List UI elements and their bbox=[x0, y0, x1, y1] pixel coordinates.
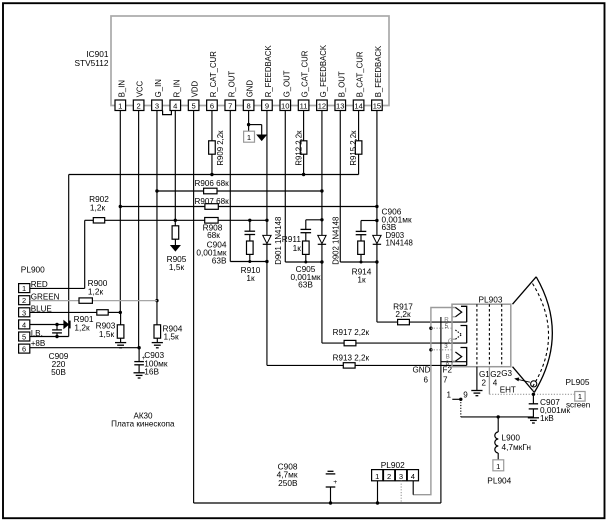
pin 5 (VDD) of IC901 bbox=[188, 100, 199, 111]
svg-text:GREEN: GREEN bbox=[31, 292, 60, 301]
svg-text:2: 2 bbox=[482, 378, 487, 387]
resistor R904 body bbox=[154, 325, 161, 338]
svg-text:4: 4 bbox=[173, 101, 177, 110]
svg-text:R_OUT: R_OUT bbox=[227, 71, 236, 98]
pin 4 (R_IN) of IC901 bbox=[170, 100, 181, 111]
node PL902 pin1 bbox=[376, 501, 379, 504]
resistor R907 body bbox=[205, 204, 218, 210]
ground C907 bbox=[528, 417, 539, 419]
svg-text:1,5к: 1,5к bbox=[169, 262, 185, 272]
wire GREEN (grey) bbox=[30, 300, 79, 302]
svg-text:VCC: VCC bbox=[136, 80, 145, 97]
CRT screen inner arc dashed bbox=[532, 284, 549, 389]
resistor R909 body bbox=[209, 141, 216, 154]
wire R906 bbox=[157, 190, 203, 192]
node socket pin5 row bbox=[429, 327, 432, 330]
node pin9/R bottom wire bbox=[265, 260, 268, 263]
wire +8 pullup rail bbox=[69, 174, 359, 176]
resistor R905 body bbox=[172, 226, 179, 239]
wire G1 to ground bbox=[476, 367, 478, 391]
ground arrow R905 bbox=[171, 245, 180, 251]
capacitor C905 bbox=[301, 228, 312, 230]
svg-text:PL900: PL900 bbox=[21, 264, 45, 274]
net box 1 on pin8 bbox=[244, 131, 255, 142]
svg-text:+8В: +8В bbox=[31, 339, 46, 348]
capacitor C904 bbox=[245, 230, 256, 232]
node C908 bbox=[329, 501, 332, 504]
svg-text:G_OUT: G_OUT bbox=[282, 70, 291, 97]
svg-text:B_FEEDBACK: B_FEEDBACK bbox=[374, 45, 383, 97]
svg-text:PL904: PL904 bbox=[487, 475, 511, 485]
svg-text:1: 1 bbox=[375, 472, 379, 481]
wire heater bottom bbox=[461, 416, 534, 418]
svg-text:6: 6 bbox=[210, 101, 214, 110]
svg-text:11: 11 bbox=[300, 101, 308, 110]
wire pin13 B_OUT down bbox=[339, 111, 341, 263]
svg-text:G_IN: G_IN bbox=[154, 79, 163, 97]
pin 12 (G_FEEDBACK) of IC901 bbox=[317, 100, 328, 111]
anode arrow bbox=[518, 379, 530, 382]
wire pin12 G_FEEDBACK down bbox=[321, 111, 323, 236]
wire heater stub bbox=[452, 398, 461, 400]
svg-text:8: 8 bbox=[446, 360, 450, 367]
wire PL900 pin5 I.B. bbox=[30, 336, 69, 338]
grid G1 dashed bbox=[476, 304, 478, 367]
svg-text:R912 2,2к: R912 2,2к bbox=[294, 130, 303, 166]
wire B feed (pin15 row) bbox=[377, 321, 398, 323]
svg-text:D902 1N4148: D902 1N4148 bbox=[332, 217, 341, 265]
wire R feed (pin9 row) bbox=[267, 364, 343, 366]
resistor R908 body bbox=[205, 218, 218, 224]
wire bottom VDD rail bbox=[194, 502, 441, 504]
diode D903 bbox=[373, 235, 381, 243]
pin 6 of PL900 bbox=[19, 344, 30, 353]
jumper between pin3 and pin4 bbox=[163, 111, 172, 115]
wire R907 bbox=[120, 206, 205, 208]
wire C904/R910 branch bbox=[249, 220, 251, 231]
svg-text:7: 7 bbox=[228, 101, 232, 110]
node pin12/C905 wire bbox=[320, 218, 323, 221]
svg-text:63В: 63В bbox=[382, 222, 397, 232]
svg-text:PL905: PL905 bbox=[566, 377, 590, 387]
svg-text:R_IN: R_IN bbox=[172, 80, 181, 98]
wire PL900 pin4 bbox=[30, 324, 64, 326]
net box PL904 bbox=[493, 460, 504, 471]
svg-text:1: 1 bbox=[247, 133, 251, 142]
pin 3 of PL902 bbox=[395, 470, 406, 481]
wire screen dotted bbox=[489, 393, 574, 395]
svg-text:1к: 1к bbox=[357, 275, 366, 285]
pin 2 of PL902 bbox=[384, 470, 395, 481]
CRT funnel top slope bbox=[513, 277, 537, 304]
svg-text:3: 3 bbox=[444, 343, 448, 350]
pin 1 of PL900 bbox=[19, 284, 30, 293]
wire pin10 G_OUT down bbox=[284, 111, 286, 263]
svg-text:8: 8 bbox=[246, 101, 250, 110]
node pin15/B bottom wire bbox=[375, 260, 378, 263]
svg-text:2: 2 bbox=[22, 296, 26, 305]
wire riser +8 rail left bbox=[68, 175, 70, 337]
pin 3 of PL900 bbox=[19, 308, 30, 317]
electron gun R (top) bbox=[461, 306, 467, 322]
resistor R915 body bbox=[355, 141, 362, 154]
pin 1 of PL902 bbox=[372, 470, 383, 481]
wire pin4 R_IN down bbox=[174, 111, 176, 227]
pin 2 (VCC) of IC901 bbox=[133, 100, 144, 111]
node pin4/R902 wire bbox=[174, 219, 177, 222]
pin 5 of PL900 bbox=[19, 332, 30, 341]
svg-text:1к: 1к bbox=[246, 273, 255, 283]
pin 10 (G_OUT) of IC901 bbox=[280, 100, 291, 111]
wire RED riser bbox=[84, 220, 86, 288]
svg-text:16В: 16В bbox=[144, 367, 159, 377]
wire pin3 G_IN down bbox=[156, 111, 158, 326]
wire PL902 pin4 bbox=[412, 481, 414, 495]
ground arrow pin8 bbox=[257, 135, 266, 141]
wire C905 top link bbox=[306, 219, 322, 221]
wire anode to C907 bbox=[533, 387, 535, 394]
svg-text:1кВ: 1кВ bbox=[540, 413, 554, 423]
wire pin2 VCC down bbox=[138, 111, 140, 348]
node EHT/C907 bbox=[532, 393, 535, 396]
pin 8 (GND) of IC901 bbox=[243, 100, 254, 111]
wire R902/R908 row bbox=[85, 219, 94, 221]
ground R903 bbox=[115, 342, 126, 344]
CRT screen arc bbox=[534, 277, 552, 393]
wire pin14 to R915 bbox=[358, 111, 360, 142]
node pin8 bbox=[247, 123, 250, 126]
node pin12/R906 bbox=[320, 189, 323, 192]
svg-text:1: 1 bbox=[118, 101, 122, 110]
svg-text:G3: G3 bbox=[501, 369, 512, 378]
wire pin15 B_FEEDBACK down bbox=[376, 111, 378, 236]
svg-text:5: 5 bbox=[445, 323, 449, 330]
node pin1/BLUE/R903 bbox=[119, 311, 122, 314]
node pin15/C906 wire bbox=[375, 219, 378, 222]
svg-text:Плата кинескопа: Плата кинескопа bbox=[111, 420, 175, 429]
svg-text:3: 3 bbox=[22, 308, 26, 317]
pin 2 of PL900 bbox=[19, 296, 30, 305]
node pin15/R907 bbox=[375, 205, 378, 208]
ground G1 bbox=[471, 390, 482, 392]
node pin1/R907 bbox=[119, 205, 122, 208]
wire PL902 pin3 dotted bbox=[400, 481, 402, 503]
wire C906/R914 branch bbox=[360, 235, 362, 241]
svg-text:1,5к: 1,5к bbox=[164, 332, 180, 342]
svg-text:1,5к: 1,5к bbox=[99, 329, 115, 339]
svg-text:4: 4 bbox=[493, 378, 498, 387]
resistor R910 body bbox=[247, 241, 254, 254]
wire R channel bottom bbox=[230, 261, 267, 263]
wire L900 top lead bbox=[497, 417, 499, 432]
grid G2 dashed bbox=[488, 304, 490, 367]
svg-text:6: 6 bbox=[22, 345, 26, 354]
net box PL905 bbox=[575, 392, 585, 402]
svg-text:VDD: VDD bbox=[191, 80, 200, 97]
node pin3/R906 bbox=[155, 189, 158, 192]
IC IC901 STV5112 body bbox=[111, 16, 389, 106]
diode D901 bbox=[263, 235, 271, 243]
wire BLUE bbox=[30, 311, 97, 313]
svg-text:1N4148: 1N4148 bbox=[386, 239, 413, 248]
svg-text:9: 9 bbox=[463, 390, 468, 399]
pin 3 (G_IN) of IC901 bbox=[152, 100, 163, 111]
pin 13 (B_OUT) of IC901 bbox=[335, 100, 346, 111]
svg-text:G: G bbox=[448, 338, 453, 345]
ground R904 bbox=[152, 342, 163, 344]
svg-text:3: 3 bbox=[399, 472, 403, 481]
resistor R906 body bbox=[204, 188, 217, 194]
svg-text:R913 2,2к: R913 2,2к bbox=[333, 353, 370, 362]
CRT funnel bottom slope bbox=[513, 367, 535, 392]
svg-text:5: 5 bbox=[22, 333, 26, 342]
resistor R900 body bbox=[79, 298, 92, 303]
svg-text:7: 7 bbox=[443, 375, 448, 384]
resistor R914 body bbox=[358, 241, 365, 254]
svg-text:screen: screen bbox=[566, 401, 590, 410]
svg-text:L900: L900 bbox=[502, 432, 521, 442]
svg-text:R917 2,2к: R917 2,2к bbox=[333, 328, 370, 337]
svg-text:2: 2 bbox=[387, 472, 391, 481]
svg-text:4,7мкГн: 4,7мкГн bbox=[502, 442, 531, 452]
svg-text:5: 5 bbox=[192, 101, 196, 110]
svg-text:1: 1 bbox=[447, 390, 452, 399]
anode circle bbox=[531, 381, 537, 387]
inductor L900 bbox=[495, 432, 498, 439]
diode D902 bbox=[318, 235, 326, 243]
svg-text:9: 9 bbox=[265, 101, 269, 110]
svg-text:GND: GND bbox=[246, 80, 255, 98]
node C909 bottom bbox=[55, 335, 58, 338]
svg-text:B_IN: B_IN bbox=[117, 80, 126, 97]
pin 14 (B_CAT_CUR) of IC901 bbox=[353, 100, 364, 111]
svg-text:50В: 50В bbox=[51, 367, 66, 377]
svg-text:2: 2 bbox=[137, 101, 141, 110]
svg-text:R915 2,2к: R915 2,2к bbox=[349, 130, 358, 166]
svg-text:63В: 63В bbox=[212, 255, 227, 265]
stub socket pin3 bbox=[431, 349, 452, 351]
resistor R913 body bbox=[343, 363, 355, 368]
svg-text:PL903: PL903 bbox=[479, 295, 503, 305]
resistor R903 body bbox=[117, 325, 124, 338]
capacitor C903 (electrolytic) bbox=[138, 348, 140, 362]
svg-text:1,2к: 1,2к bbox=[90, 202, 106, 212]
svg-text:12: 12 bbox=[318, 101, 326, 110]
wire heater rail bbox=[441, 361, 467, 363]
wire pin7 R_OUT down bbox=[229, 111, 231, 262]
node C904 top bbox=[248, 219, 251, 222]
wire C906 top link bbox=[361, 220, 377, 222]
wire heater dotted down bbox=[460, 399, 462, 417]
electron gun B (bottom) bbox=[461, 348, 467, 366]
wire G2 grey down bbox=[488, 367, 490, 395]
svg-text:1: 1 bbox=[496, 462, 500, 471]
resistor R901 body bbox=[97, 310, 108, 315]
wire C905/R911 branch bbox=[305, 233, 307, 241]
svg-text:15: 15 bbox=[373, 101, 381, 110]
node pin12/G bottom wire bbox=[320, 260, 323, 263]
wire pin8 GND down bbox=[248, 111, 250, 132]
node socket pin3 row bbox=[429, 348, 432, 351]
node heater bbox=[459, 398, 462, 401]
node pin2/+8B rail bbox=[137, 346, 140, 349]
wire pin5 VDD down to bottom rail bbox=[193, 111, 195, 504]
pin 6 (R_CAT_CUR) of IC901 bbox=[207, 100, 218, 111]
svg-text:R_CAT_CUR: R_CAT_CUR bbox=[209, 51, 218, 98]
svg-text:PL902: PL902 bbox=[381, 460, 405, 470]
node R914 bottom bbox=[360, 261, 363, 264]
wire pin11 to R912 bbox=[303, 111, 305, 142]
grid G3 dashed bbox=[501, 304, 503, 367]
wire F2 heater riser bbox=[440, 317, 442, 503]
node R912/+8 rail bbox=[302, 173, 305, 176]
svg-text:ЕНТ: ЕНТ bbox=[500, 386, 516, 395]
connector PL903 outline bbox=[452, 304, 511, 367]
pin 7 (R_OUT) of IC901 bbox=[225, 100, 236, 111]
wire pin6 to R909 bbox=[211, 111, 213, 142]
resistor R912 body bbox=[300, 141, 307, 154]
svg-text:R909 2,2к: R909 2,2к bbox=[216, 130, 225, 166]
svg-text:13: 13 bbox=[336, 101, 344, 110]
pin 4 of PL902 bbox=[407, 470, 418, 481]
node C909 top bbox=[55, 323, 58, 326]
pin 4 of PL900 bbox=[19, 320, 30, 329]
node R910 bottom bbox=[248, 260, 251, 263]
socket grey pin path bbox=[413, 308, 455, 495]
svg-text:R_FEEDBACK: R_FEEDBACK bbox=[264, 45, 273, 98]
svg-text:STV5112: STV5112 bbox=[75, 58, 109, 68]
pin 15 (B_FEEDBACK) of IC901 bbox=[372, 100, 383, 111]
resistor R902 body bbox=[93, 218, 104, 223]
node L900 tap bbox=[497, 415, 500, 418]
svg-text:4: 4 bbox=[22, 320, 26, 329]
node R909/+8 rail bbox=[210, 173, 213, 176]
wire +8B bbox=[30, 347, 139, 349]
diode to +8 riser bbox=[64, 321, 69, 329]
svg-text:10: 10 bbox=[281, 101, 289, 110]
svg-text:+: + bbox=[333, 479, 337, 486]
pin 11 (G_CAT_CUR) of IC901 bbox=[298, 100, 309, 111]
stub socket pin5 bbox=[431, 327, 452, 329]
capacitor C906 bbox=[356, 230, 367, 232]
pin 9 (R_FEEDBACK) of IC901 bbox=[262, 100, 273, 111]
resistor R911 body bbox=[303, 241, 310, 254]
svg-text:B_CAT_CUR: B_CAT_CUR bbox=[356, 51, 365, 97]
svg-text:G_CAT_CUR: G_CAT_CUR bbox=[301, 50, 310, 97]
svg-text:3: 3 bbox=[155, 101, 159, 110]
svg-text:250В: 250В bbox=[278, 478, 298, 488]
svg-text:B_OUT: B_OUT bbox=[337, 71, 346, 97]
ground C903 bbox=[134, 372, 145, 374]
resistor R917 body (middle) bbox=[344, 340, 356, 345]
svg-text:6: 6 bbox=[424, 375, 429, 384]
node pin3/GREEN bbox=[155, 299, 158, 302]
wire G channel bottom bbox=[285, 261, 322, 263]
wire pin8 gnd branch bbox=[249, 124, 262, 126]
resistor R917 body (top) bbox=[398, 319, 410, 324]
svg-text:G_FEEDBACK: G_FEEDBACK bbox=[319, 44, 328, 97]
svg-text:4: 4 bbox=[411, 472, 415, 481]
svg-text:1к: 1к bbox=[293, 243, 302, 253]
wire RED bbox=[30, 287, 85, 289]
wire pin1 B_IN down bbox=[119, 111, 121, 313]
capacitor C908 (electrolytic) bbox=[328, 470, 334, 472]
svg-text:1,2к: 1,2к bbox=[88, 286, 104, 296]
svg-text:2,2к: 2,2к bbox=[395, 309, 411, 319]
node R911 bottom bbox=[304, 261, 307, 264]
pin 1 (B_IN) of IC901 bbox=[115, 100, 126, 111]
svg-text:R906 68к: R906 68к bbox=[195, 179, 230, 188]
wire B channel bottom bbox=[340, 261, 377, 263]
capacitor C909 bbox=[56, 325, 58, 330]
svg-text:1,2к: 1,2к bbox=[74, 322, 90, 332]
wire pin9 R_FEEDBACK down bbox=[266, 111, 268, 236]
svg-text:63В: 63В bbox=[298, 279, 313, 289]
wire PL902 pin1 down bbox=[377, 481, 379, 503]
svg-text:GND: GND bbox=[413, 366, 431, 375]
svg-text:1: 1 bbox=[22, 284, 26, 293]
svg-text:14: 14 bbox=[354, 101, 362, 110]
electron gun G (middle) bbox=[461, 326, 467, 344]
capacitor C907 bbox=[532, 394, 534, 403]
wire G feed (pin12 row) bbox=[322, 342, 344, 344]
node pin9/R908 wire bbox=[265, 219, 268, 222]
